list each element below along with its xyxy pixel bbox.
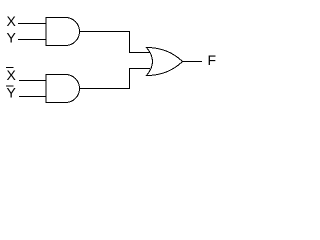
svg-text:X: X [7, 67, 17, 83]
svg-text:Y: Y [7, 30, 17, 46]
svg-text:F: F [208, 52, 217, 68]
svg-text:Y: Y [7, 85, 17, 101]
svg-text:X: X [7, 13, 17, 29]
